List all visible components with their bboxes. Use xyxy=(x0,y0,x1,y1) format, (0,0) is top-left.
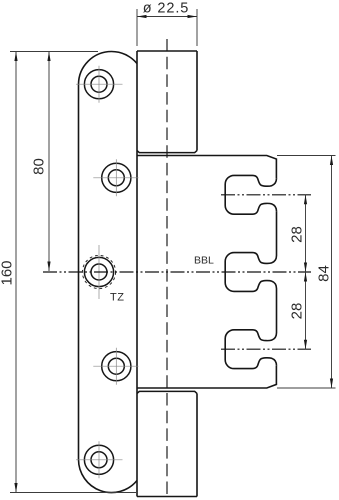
28 upper dimension line xyxy=(305,195,307,272)
svg-text:28: 28 xyxy=(289,226,306,243)
svg-text:80: 80 xyxy=(31,158,48,175)
28 upper arrows xyxy=(304,195,307,205)
dia 22.5 dimension line xyxy=(137,16,197,18)
screw hole 4 xyxy=(93,348,138,385)
svg-text:BBL: BBL xyxy=(194,255,214,267)
80 dimension line xyxy=(48,52,50,271)
hook 3 axis (dash-dot) xyxy=(221,348,311,350)
hook 1 axis (dash-dot) xyxy=(221,194,311,196)
svg-text:TZ: TZ xyxy=(110,292,124,304)
80 arrows xyxy=(47,52,50,62)
dia 22.5 dimension: extension lines xyxy=(137,9,197,46)
barrel centerline (vertical dash-dot) xyxy=(166,39,168,499)
top knuckle bottom rim xyxy=(137,151,197,153)
84 dimension line xyxy=(331,156,333,389)
bottom knuckle top rim xyxy=(137,391,197,393)
screw hole 3 (TZ center hole) xyxy=(82,245,115,299)
28 lower dimension line xyxy=(305,272,307,349)
hinge leaf outline xyxy=(78,51,137,492)
svg-text:28: 28 xyxy=(289,303,306,320)
frame part plate top edge xyxy=(137,156,276,179)
84 dimension: extension lines xyxy=(277,156,336,389)
hook 1 xyxy=(225,175,276,214)
28 lower arrows xyxy=(304,272,307,282)
84 arrows xyxy=(330,156,333,166)
svg-text:ø 22.5: ø 22.5 xyxy=(143,1,190,17)
svg-text:160: 160 xyxy=(0,260,16,285)
frame part plate bottom edge xyxy=(137,366,276,388)
hook 2 xyxy=(225,211,276,291)
svg-text:84: 84 xyxy=(316,265,333,282)
main horizontal axis (dash-dot through TZ hole) xyxy=(43,271,311,273)
screw hole 5 xyxy=(76,441,123,478)
screw hole 2 xyxy=(93,159,138,196)
160 dimension: extension lines xyxy=(10,52,136,493)
dia 22.5 arrows xyxy=(137,15,147,18)
screw hole 1 xyxy=(76,66,123,103)
barrel (hinge knuckle cylinder) xyxy=(137,51,197,497)
160 dimension line xyxy=(15,52,17,493)
160 arrows xyxy=(14,52,17,62)
hook 3 xyxy=(225,289,276,369)
